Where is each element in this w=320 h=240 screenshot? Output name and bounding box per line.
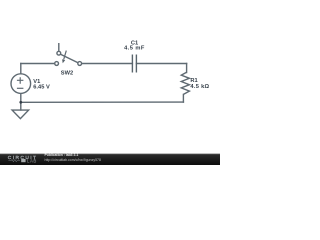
- wire V1 bottom lead: [20, 93, 22, 110]
- voltage source V1: [11, 74, 31, 94]
- svg-text:SW2: SW2: [61, 70, 73, 76]
- switch SW2: [55, 43, 82, 65]
- svg-text:LAB: LAB: [27, 158, 37, 163]
- capacitor C1: [132, 55, 136, 73]
- wire right vertical top: [186, 64, 188, 73]
- wire top rail left segment: [21, 63, 55, 65]
- svg-text:4.5 mF: 4.5 mF: [124, 45, 145, 51]
- wire right vertical bottom: [182, 94, 184, 102]
- svg-text:4.5 kΩ: 4.5 kΩ: [190, 84, 209, 90]
- svg-text:Publication : lab3 2-1: Publication : lab3 2-1: [45, 153, 79, 157]
- svg-text:6.45 V: 6.45 V: [33, 84, 50, 90]
- wire top-left vertical: [20, 64, 22, 75]
- wire top rail right segment: [136, 63, 186, 65]
- wire bottom rail: [21, 101, 184, 103]
- ground: [12, 110, 29, 119]
- resistor R1: [181, 72, 189, 94]
- svg-text:R1: R1: [190, 78, 197, 84]
- junction dot: [19, 101, 22, 104]
- wire top rail middle segment: [82, 63, 133, 65]
- svg-text:http://circuitlab.com/c/hw/9gu: http://circuitlab.com/c/hw/9gunzy578: [45, 158, 101, 162]
